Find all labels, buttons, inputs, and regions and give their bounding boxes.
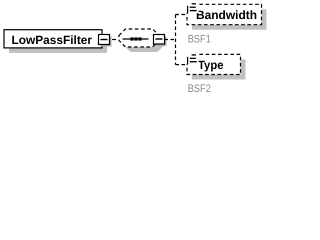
svg-text:BSF2: BSF2: [188, 83, 211, 95]
sequence compositor: [119, 29, 164, 52]
collapse button of LowPassFilter: [99, 35, 112, 47]
branch vertical wire: [175, 15, 177, 65]
element box LowPassFilter: [4, 30, 107, 53]
element box Bandwidth: [187, 4, 267, 29]
wire to Type: [176, 64, 188, 66]
text-content icon of Type: [186, 52, 198, 64]
expand button of sequence: [154, 35, 167, 47]
element box Type: [187, 54, 246, 79]
text-content icon of Bandwidth: [186, 1, 198, 13]
svg-text:Bandwidth: Bandwidth: [196, 8, 257, 22]
wire from LowPassFilter to sequence: [112, 39, 119, 41]
wire to Bandwidth: [176, 14, 188, 16]
wire from sequence to branch: [165, 39, 176, 41]
svg-text:LowPassFilter: LowPassFilter: [12, 33, 93, 47]
svg-text:BSF1: BSF1: [188, 34, 211, 46]
svg-text:Type: Type: [198, 58, 224, 72]
